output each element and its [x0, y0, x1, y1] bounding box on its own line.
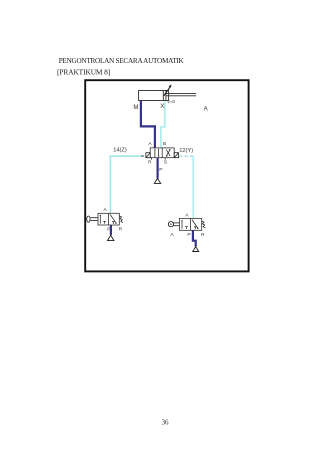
svg-text:P: P	[159, 167, 162, 173]
svg-text:A: A	[170, 232, 174, 238]
svg-text:14(Z): 14(Z)	[113, 148, 127, 154]
right box arrows crossed	[166, 150, 170, 157]
pilot box right 12	[174, 153, 178, 158]
frame border	[85, 80, 248, 271]
port stub R	[151, 158, 153, 160]
port stub S	[164, 158, 166, 160]
svg-text:[PRAKTIKUM 8]: [PRAKTIKUM 8]	[57, 68, 110, 77]
spring S1	[119, 216, 123, 223]
left box arrows	[154, 149, 156, 157]
pilot line 14(Z) left (cyan)	[110, 156, 143, 213]
valve S1 3/2 pushbutton (bottom left)	[98, 213, 119, 225]
cylinder speed arrow	[164, 87, 170, 96]
right box diagonal	[110, 214, 116, 223]
pilot dash near right pilot	[179, 155, 194, 157]
cylinder A (double-acting, rod right)	[139, 91, 197, 101]
svg-text:A: A	[104, 207, 108, 213]
svg-text:R: R	[201, 232, 205, 238]
source triangle under V1	[154, 178, 160, 183]
right box T	[194, 227, 196, 230]
wire P to source (navy, S1)	[110, 225, 112, 235]
svg-text:P: P	[107, 227, 110, 233]
valve V1 5/2 double pilot	[150, 148, 174, 158]
svg-text:R: R	[119, 226, 123, 232]
left box flow arrow	[181, 220, 183, 229]
pushbutton actuator	[87, 216, 90, 222]
source triangle under S1	[108, 235, 114, 240]
svg-text:R: R	[148, 160, 152, 166]
left box T	[104, 221, 106, 223]
svg-text:A: A	[148, 141, 152, 147]
wire P to source (navy)	[157, 158, 159, 179]
svg-text:A: A	[185, 212, 189, 218]
svg-text:PENGONTROLAN SECARA AUTOMATIK: PENGONTROLAN SECARA AUTOMATIK	[59, 57, 185, 65]
pilot line 12(Y) right (cyan)	[192, 156, 194, 218]
svg-text:12(Y): 12(Y)	[179, 148, 193, 154]
right box T	[112, 222, 114, 224]
source triangle under S2	[193, 247, 199, 252]
pilot dash near left pilot	[141, 155, 146, 157]
spring S2	[202, 221, 206, 228]
roller actuator	[168, 222, 173, 227]
svg-text:S: S	[164, 160, 168, 166]
wire P to source (navy, S2)	[193, 230, 196, 246]
svg-text:B: B	[163, 141, 166, 147]
svg-text:X: X	[160, 103, 164, 110]
svg-text:M: M	[133, 104, 138, 111]
valve S2 3/2 roller (bottom right)	[179, 219, 201, 231]
svg-text:36: 36	[162, 419, 170, 427]
wire X to valve port B (cyan)	[161, 101, 165, 148]
left box T	[185, 227, 187, 229]
svg-text:v=0: v=0	[167, 99, 175, 105]
svg-text:A: A	[204, 105, 209, 112]
wire M to valve port A (navy)	[141, 101, 155, 148]
right box diagonal	[192, 220, 198, 229]
left box flow arrow	[99, 215, 101, 223]
svg-text:P: P	[187, 232, 190, 238]
pilot box left 14	[146, 153, 150, 158]
